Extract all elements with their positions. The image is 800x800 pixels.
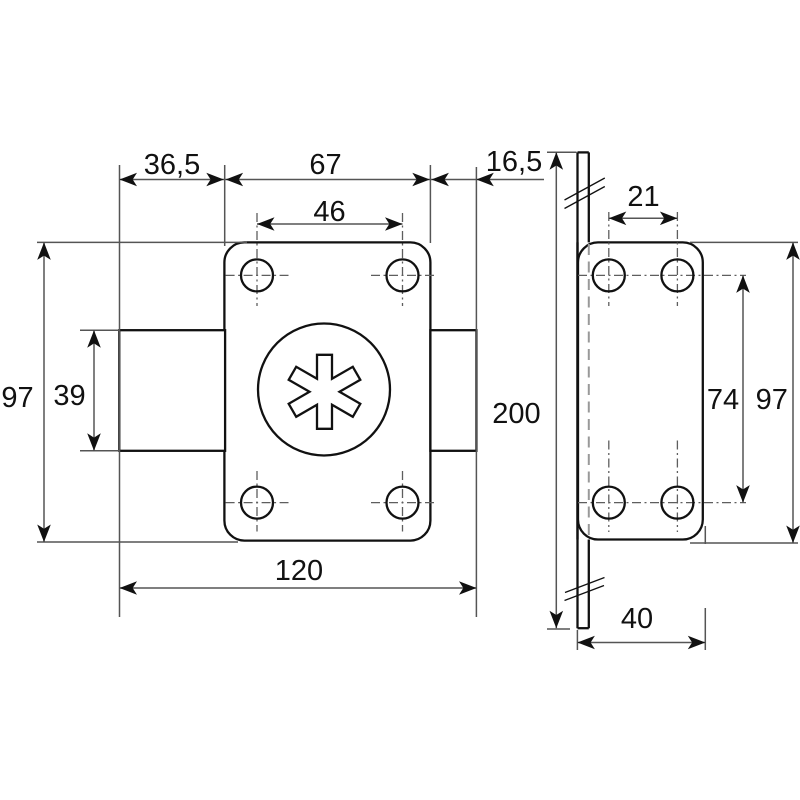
dimension 74 [736, 275, 750, 502]
front view: lock body plate [224, 242, 430, 540]
svg-text:97: 97 [756, 384, 788, 416]
side view: lock case body [578, 242, 703, 539]
dimension 200 [550, 152, 564, 628]
center line side top-left vertical / 21 extension [608, 212, 610, 306]
side hole bottom-right [661, 487, 693, 519]
front hole bottom-left [241, 487, 273, 519]
extension line top left (97) [37, 241, 247, 243]
front view: cylinder boss (left) [119, 330, 225, 451]
svg-text:97: 97 [1, 382, 33, 414]
center line side bottom-right vertical [676, 441, 678, 533]
dimension 46 [257, 217, 403, 231]
side hole top-left [593, 259, 625, 291]
svg-text:200: 200 [492, 398, 540, 430]
dimension 120 [120, 581, 477, 595]
svg-text:46: 46 [313, 196, 345, 228]
front view: bolt (right) [430, 330, 476, 451]
dimension 39 [87, 330, 101, 451]
dimension 40 [577, 636, 705, 650]
svg-text:16,5: 16,5 [486, 146, 542, 178]
dimension 97 left [37, 242, 51, 542]
front view: knob circle [258, 324, 390, 456]
front hole top-left [241, 259, 273, 291]
dimension 21 [609, 212, 678, 226]
dimension 97 right [786, 242, 800, 543]
break mark top [565, 178, 605, 209]
side hole bottom-left [593, 487, 625, 519]
side hole top-right [661, 259, 693, 291]
center line hole top-right horizontal [371, 274, 434, 276]
200 bottom tick [547, 628, 570, 630]
center line side top holes horizontal [578, 274, 746, 276]
svg-text:40: 40 [621, 603, 653, 635]
extension line at x=430.4 (67 / 16,5) [429, 165, 431, 243]
center line hole top-right vertical / 46 extension [402, 213, 404, 306]
front hole bottom-right [387, 487, 419, 519]
side view: mounting plate bar [578, 152, 589, 628]
200 top tick [547, 151, 577, 153]
side view: plate left edge over body [576, 242, 578, 539]
extension line bottom left (97) [37, 541, 238, 543]
center line hole bottom-right vertical [402, 471, 404, 532]
extension line 40 right [704, 526, 706, 544]
center line hole bottom-left vertical [256, 471, 258, 532]
center line side top-right vertical / 21 extension [676, 212, 678, 306]
center line side bottom-left vertical [608, 441, 610, 533]
extension line at x=224.7 (36,5 / 67) [224, 165, 226, 246]
extension line 39 top [80, 329, 120, 331]
extension line 97 right top [690, 241, 798, 243]
break mark bottom [565, 578, 605, 601]
extension line 97 right bottom [690, 542, 798, 544]
svg-text:39: 39 [53, 380, 85, 412]
svg-text:74: 74 [707, 384, 739, 416]
svg-text:36,5: 36,5 [144, 149, 200, 181]
center line hole top-left vertical / 46 extension [256, 213, 258, 306]
extension line at x=476.4 (16,5 / 120) [475, 167, 477, 617]
front view: asterisk knob grip [289, 355, 361, 429]
svg-text:21: 21 [627, 181, 659, 213]
dimension 36,5 / 67 / 16,5 line [120, 173, 545, 187]
center line side bottom holes horizontal [578, 502, 746, 504]
front hole top-right [387, 259, 419, 291]
center line hole bottom-left horizontal [226, 502, 289, 504]
extension line 40 left [576, 630, 578, 650]
fold line (hidden plate edge, dashed) [588, 244, 590, 540]
center line hole bottom-right horizontal [371, 502, 434, 504]
svg-text:120: 120 [275, 555, 323, 587]
center line hole top-left horizontal [226, 274, 289, 276]
extension line at x=119.5 (36,5 / 120) [119, 165, 121, 617]
svg-text:67: 67 [309, 149, 341, 181]
extension line 39 bottom [80, 450, 120, 452]
